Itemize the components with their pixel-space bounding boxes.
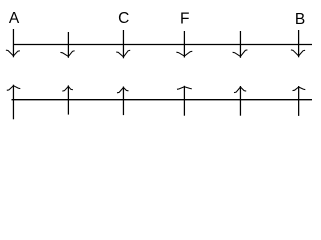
svg-text:C: C bbox=[118, 10, 129, 27]
up arrow 3 bbox=[117, 87, 129, 116]
down arrow at C bbox=[116, 30, 130, 58]
wire bottom rail bbox=[12, 99, 313, 101]
svg-text:F: F bbox=[180, 10, 189, 27]
up arrow 2 bbox=[62, 85, 73, 114]
svg-text:A: A bbox=[9, 10, 20, 27]
up arrow 1 bbox=[7, 85, 21, 120]
up arrow 5 bbox=[234, 86, 246, 116]
wire top rail bbox=[13, 44, 312, 46]
down arrow at B bbox=[291, 30, 305, 57]
down arrow at A bbox=[6, 29, 20, 57]
svg-text:B: B bbox=[295, 11, 305, 28]
down arrow 2 bbox=[60, 32, 74, 58]
up arrow 6 bbox=[293, 86, 306, 116]
down arrow 5 bbox=[233, 31, 248, 58]
up arrow 4 bbox=[177, 86, 192, 116]
down arrow at F bbox=[176, 31, 192, 58]
